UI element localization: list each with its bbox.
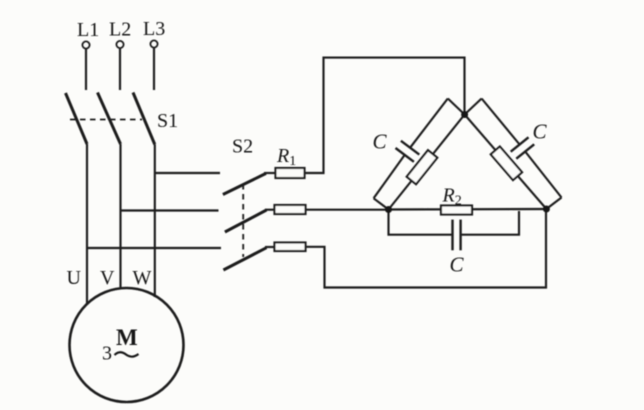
motor M circle — [70, 288, 184, 402]
svg-text:L2: L2 — [109, 19, 131, 41]
wire right vertex corner edge — [546, 198, 561, 210]
svg-text:3: 3 — [102, 343, 112, 365]
wire R1 to top rail — [305, 58, 465, 173]
label U — [67, 267, 82, 289]
label L1 — [77, 19, 99, 41]
resistor R2 — [441, 206, 472, 215]
node left vertex junction — [385, 206, 392, 213]
wire L1 feeder — [85, 49, 87, 90]
wire lower capacitor branch — [389, 210, 520, 235]
label C (right) — [533, 120, 548, 144]
wire delta bottom side — [389, 208, 547, 211]
wire S2 pole1 to R1 — [264, 172, 276, 174]
svg-text:C: C — [450, 253, 465, 277]
svg-text:C: C — [533, 120, 548, 144]
label C (bottom) — [450, 253, 465, 277]
label V — [100, 267, 115, 289]
wire U vertical — [86, 144, 88, 305]
svg-text:M: M — [116, 325, 138, 350]
switch S2 pole 3 blade — [223, 248, 266, 270]
capacitor C (bottom) plates — [453, 220, 461, 251]
wire left vertex corner edge — [374, 198, 389, 209]
switch S1 pole 3 blade — [133, 93, 155, 145]
switch S2 pole 1 blade — [223, 173, 266, 194]
wire right peak to apex edge — [465, 99, 482, 115]
resistor (right branch, rotated) — [491, 147, 522, 181]
resistor (bottom, S2 pole 3) — [275, 243, 306, 252]
capacitor C (left branch) plates — [396, 141, 420, 162]
switch S1 pole 2 blade — [98, 93, 121, 145]
wire V to S2 pole 2 — [121, 209, 219, 211]
wire L2 feeder — [119, 48, 121, 90]
svg-text:V: V — [100, 267, 115, 289]
terminal L3 — [150, 40, 157, 47]
node right vertex junction — [543, 206, 550, 213]
wire W vertical — [154, 145, 156, 298]
wire S2 pole3 to bottom resistor — [265, 246, 275, 248]
label R2 — [442, 185, 462, 209]
wire U to S2 pole 3 — [87, 247, 221, 249]
wire delta left outer side — [374, 99, 448, 199]
label R1 — [276, 145, 296, 169]
terminal L1 — [82, 41, 89, 48]
wire delta right inner side — [465, 115, 547, 210]
resistor (middle, S2 pole 2) — [275, 205, 306, 214]
svg-text:S2: S2 — [232, 136, 253, 158]
motor label 3~ — [102, 343, 139, 365]
label L3 — [143, 18, 165, 40]
resistor (left branch, rotated) — [407, 150, 438, 184]
wire middle resistor to left vertex — [306, 209, 389, 211]
node apex junction — [461, 111, 468, 118]
svg-text:L1: L1 — [77, 19, 99, 41]
svg-text:C: C — [373, 130, 388, 154]
terminal L2 — [116, 41, 123, 48]
svg-text:W: W — [133, 267, 152, 289]
motor label M — [116, 325, 138, 350]
label S2 — [232, 136, 253, 158]
label L2 — [109, 19, 131, 41]
label W — [133, 267, 152, 289]
wire S2 pole2 to middle resistor — [265, 209, 275, 211]
switch S2 pole 2 blade — [225, 210, 267, 232]
wire bottom resistor to bottom rail to right vertex — [306, 209, 547, 288]
capacitor C (right branch) plates — [511, 137, 535, 158]
label C (left) — [373, 130, 388, 154]
svg-text:S1: S1 — [157, 110, 178, 132]
label S1 — [157, 110, 178, 132]
svg-text:U: U — [67, 267, 82, 289]
switch S2 linkage (dashed) — [242, 184, 244, 257]
wire left peak to apex edge — [448, 99, 465, 115]
svg-text:L3: L3 — [143, 18, 165, 40]
wire delta left inner side — [389, 115, 465, 210]
wire W to S2 pole 1 — [155, 172, 220, 174]
resistor R1 — [276, 168, 305, 178]
switch S1 linkage (dashed) — [70, 119, 142, 121]
switch S1 pole 1 blade — [66, 93, 88, 144]
wire L3 feeder — [153, 48, 155, 90]
wire V vertical — [119, 144, 121, 290]
wire delta right outer side — [482, 99, 562, 198]
